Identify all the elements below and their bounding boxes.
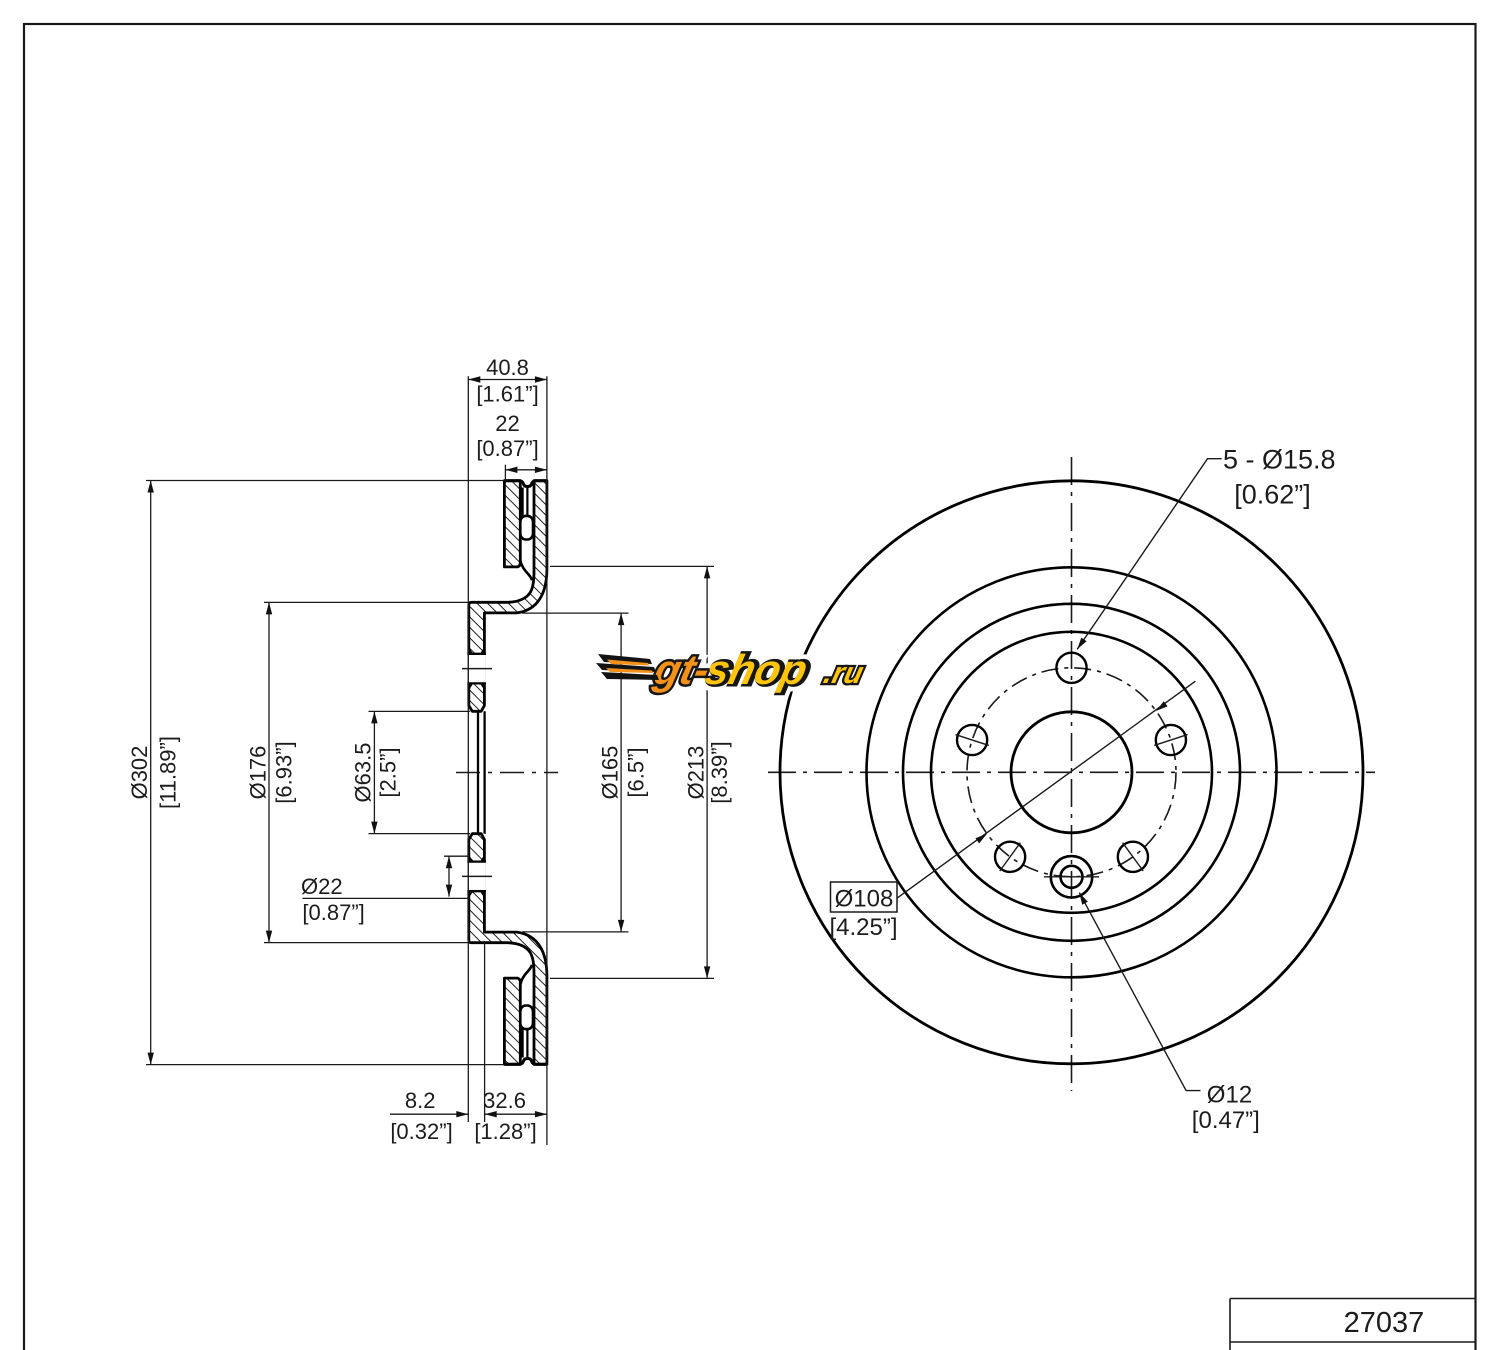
svg-text:40.8: 40.8 [486, 355, 529, 380]
svg-text:[0.87”]: [0.87”] [302, 900, 364, 925]
vent vane pill (bottom) [520, 1006, 533, 1030]
bolt hole D15.8 at 18 deg [1156, 725, 1186, 755]
front view vertical centerline [1071, 457, 1073, 1091]
dimension 8.2 [390, 1113, 468, 1115]
svg-text:Ø213: Ø213 [684, 746, 709, 800]
extension line hat outer face (long, shared 40.8 / 8.2) [467, 376, 469, 1122]
svg-text:[11.89”]: [11.89”] [156, 736, 181, 809]
svg-text:8.2: 8.2 [405, 1088, 436, 1113]
bolt hole radial centre tick 162 deg [956, 735, 989, 746]
vent vane pill (top) [520, 516, 533, 540]
hat wall bolt hole (top, sectioned) [467, 654, 486, 684]
OD vent notch (bottom edge) [504, 1059, 547, 1065]
dimension 32.6 [485, 1113, 547, 1115]
gt-shop.ru watermark logo [596, 646, 869, 693]
svg-text:[0.47”]: [0.47”] [1192, 1107, 1260, 1134]
circle D176 (hat barrel) [903, 604, 1240, 941]
extension line pad right face (long, shared 40.8 / 22 / 32.6) [546, 376, 548, 1145]
dimension D22 (bolt hole mouth) [444, 855, 469, 857]
dimension 40.8 [468, 379, 547, 381]
vent gap bottom-left wall curve (top half) [520, 561, 532, 581]
svg-text:[0.32”]: [0.32”] [390, 1119, 452, 1144]
dimension D165 [522, 612, 629, 614]
bolt hole radial centre tick 306 deg [1123, 843, 1144, 871]
bolt hole D15.8 at 234 deg [995, 842, 1025, 872]
vent slot walls (bottom) [521, 1029, 523, 1057]
svg-text:Ø108: Ø108 [835, 886, 894, 913]
svg-text:[1.61”]: [1.61”] [476, 382, 538, 407]
leader D12 [1079, 893, 1200, 1091]
title block table [1230, 1299, 1476, 1350]
hat wall bolt hole (bottom, sectioned) [467, 862, 486, 892]
centre bore silhouette lines [477, 711, 479, 833]
svg-text:Ø12: Ø12 [1207, 1082, 1252, 1109]
set screw hole D12 with D22 counterbore at 270 deg [1051, 856, 1092, 897]
bolt hole centre mark (top) [462, 668, 492, 670]
section centerline [456, 772, 558, 774]
vent slot walls (top) [521, 488, 523, 516]
svg-text:[4.25”]: [4.25”] [829, 914, 897, 941]
bolt hole radial centre tick 18 deg [1154, 735, 1187, 746]
bolt hole D15.8 at 90 deg [1056, 653, 1086, 683]
extension line hat inner face (8.2 / 32.6) [484, 941, 486, 1122]
svg-text:[2.5”]: [2.5”] [376, 747, 401, 797]
svg-text:Ø63.5: Ø63.5 [351, 743, 376, 803]
dimension D176 [264, 601, 469, 603]
section view: upper-left friction pad (hatched) [504, 481, 520, 567]
svg-text:shop: shop [701, 646, 812, 693]
svg-text:Ø176: Ø176 [246, 746, 271, 800]
svg-text:[0.87”]: [0.87”] [476, 436, 538, 461]
leader 5-D15.8 [1077, 459, 1222, 650]
OD vent notch (top edge) [504, 481, 547, 487]
svg-text:Ø22: Ø22 [301, 874, 343, 899]
section view: lower right pad + neck + barrel + hat wall (hatched J shape, mirrored) [469, 834, 547, 1065]
bolt hole D15.8 at 162 deg [957, 725, 987, 755]
svg-text:Ø302: Ø302 [127, 746, 152, 800]
bolt hole centre mark (bottom) [462, 875, 492, 877]
svg-text:32.6: 32.6 [483, 1088, 526, 1113]
logo speed flames [596, 654, 659, 680]
section view: lower-left friction pad (hatched) [504, 978, 520, 1064]
svg-text:Ø165: Ø165 [598, 746, 623, 800]
svg-text:[1.28”]: [1.28”] [474, 1119, 536, 1144]
bolt hole radial centre tick 234 deg [1000, 843, 1021, 871]
bolt hole D15.8 at 306 deg [1118, 842, 1148, 872]
centre bore D63.5 [1011, 712, 1132, 833]
vent gap top-left wall curve (bottom half) [520, 965, 532, 985]
dimension D213 [550, 565, 714, 567]
dimension D302 [146, 480, 504, 482]
dimension 22 (pad thickness) [504, 465, 506, 481]
svg-text:[0.62”]: [0.62”] [1234, 479, 1311, 509]
svg-text:[6.93”]: [6.93”] [272, 741, 297, 803]
dimension D63.5 [369, 710, 471, 712]
svg-text:[6.5”]: [6.5”] [624, 747, 649, 797]
svg-text:5 - Ø15.8: 5 - Ø15.8 [1223, 445, 1336, 475]
circle D213 (pad inner edge) [867, 567, 1277, 977]
leader D108 bolt circle [897, 681, 1196, 898]
section view: upper right pad + neck + barrel + hat wall (hatched J shape) [469, 481, 547, 712]
svg-text:27037: 27037 [1344, 1307, 1425, 1339]
disc outer circle D302 [780, 481, 1363, 1064]
front view horizontal centerline [768, 771, 1375, 773]
svg-text:[8.39”]: [8.39”] [707, 741, 732, 803]
bolt circle D108 (dash-dot) [967, 668, 1176, 877]
circle hat face edge [931, 632, 1212, 913]
svg-text:22: 22 [495, 411, 519, 436]
